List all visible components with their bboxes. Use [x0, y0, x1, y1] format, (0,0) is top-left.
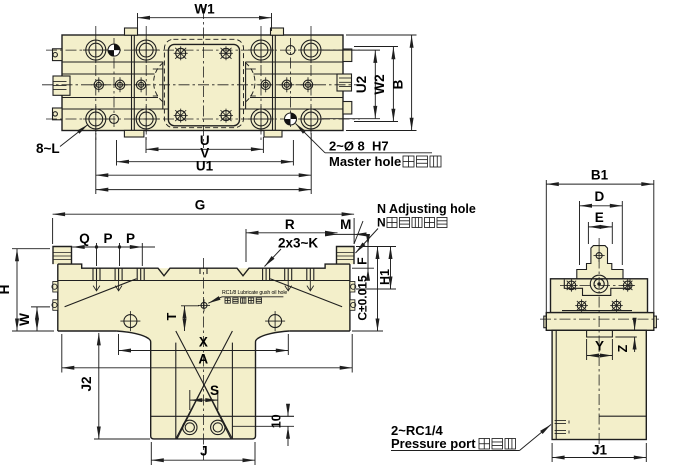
dimension W: [17, 307, 37, 331]
right rod-end blocks: [343, 49, 352, 114]
dimension M: [327, 217, 365, 244]
clamp bolt holes 8~L (big circles): [83, 37, 324, 132]
dimension B extension lines: [346, 35, 417, 131]
column cross diagonals: [176, 331, 233, 439]
dimension F: [356, 238, 370, 276]
body inner wall line: [555, 330, 557, 439]
callout N adjusting hole: [356, 202, 476, 253]
svg-text:2~Ø 8 H7: 2~Ø 8 H7: [329, 139, 389, 154]
svg-text:B: B: [391, 79, 406, 89]
dimension J1: [552, 443, 646, 458]
jaw edge verticals: [132, 35, 276, 131]
tongue hole: [594, 249, 605, 262]
dimension X extension lines: [119, 334, 289, 355]
body half line: [599, 415, 646, 417]
dimension E extension lines: [588, 222, 612, 244]
dimension J2 extension line: [94, 438, 150, 440]
callout 2~RC1/4 pressure port: [391, 423, 551, 451]
ear thread lines right: [337, 253, 354, 260]
dimension R: [246, 217, 338, 262]
bottom mounting tabs: [124, 130, 282, 137]
dimension Y: [587, 339, 613, 356]
ear thread lines left: [54, 253, 72, 260]
dimension J extension lines: [151, 442, 255, 465]
dimension H extension lines: [12, 249, 54, 331]
wedge triangle: [177, 385, 231, 439]
left rod-end blocks: [53, 49, 63, 120]
callout 2x3~K: [265, 236, 319, 267]
dimension H: [0, 249, 17, 331]
svg-text:Z: Z: [616, 344, 630, 352]
dimension J1 extension lines: [552, 443, 646, 462]
svg-text:10: 10: [270, 414, 284, 428]
dimension V: [117, 146, 294, 162]
svg-text:P: P: [126, 231, 135, 246]
svg-text:A: A: [198, 352, 208, 367]
dimension E: [588, 210, 612, 227]
front view centerline: [202, 258, 204, 460]
svg-text:E: E: [595, 210, 604, 225]
column horizontal line: [151, 416, 294, 426]
dimension B: [391, 35, 412, 130]
front view pedestal column fill: [117, 331, 290, 439]
dimension C: [377, 247, 379, 332]
svg-text:D: D: [595, 189, 605, 204]
dimension F H1 C+-0.015 extension lines: [352, 247, 396, 332]
dimension Z: [615, 318, 636, 352]
side pin blocks right: [350, 282, 356, 311]
front face holes: [120, 311, 285, 331]
dimension G extension lines: [53, 218, 355, 244]
dimension U1: [96, 159, 311, 176]
front view outline: [53, 247, 354, 332]
svg-text:W1: W1: [194, 2, 215, 17]
svg-text:8~L: 8~L: [36, 141, 60, 156]
left piston-rod section block: [53, 76, 70, 95]
column inner vertical lines: [176, 343, 233, 439]
dimension B1 extension lines: [546, 180, 654, 314]
svg-text:C±0.015: C±0.015: [356, 275, 370, 321]
dimension W extension lines: [31, 306, 50, 308]
svg-text:W2: W2: [372, 74, 387, 94]
dimension D: [580, 189, 623, 206]
dimension W2 extension lines: [354, 47, 398, 122]
dimension Y extension lines: [587, 339, 613, 360]
svg-text:P: P: [103, 231, 112, 246]
dimension J: [151, 444, 255, 461]
svg-text:R: R: [285, 217, 295, 232]
svg-text:U1: U1: [196, 159, 214, 174]
dimension U: [146, 133, 263, 149]
svg-text:J: J: [200, 444, 208, 459]
svg-text:H1: H1: [378, 269, 392, 285]
centerlines top view: [42, 8, 362, 148]
dimension J2: [79, 333, 99, 439]
side view fills: [544, 246, 657, 440]
dimension H1: [378, 247, 392, 290]
callout RC1/8 lubricate oil hole: [208, 290, 287, 303]
centre body block: [168, 44, 239, 125]
tongue slot below flange: [587, 330, 613, 337]
dimension U2 extension lines: [322, 50, 380, 119]
wedge diagonal lines: [65, 279, 343, 307]
svg-text:J1: J1: [592, 443, 608, 458]
dimension B1: [546, 168, 654, 185]
dimension G: [53, 198, 355, 215]
side pin blocks left: [52, 282, 58, 311]
svg-text:RC1/8 Lubricate gush oil hole: RC1/8 Lubricate gush oil hole: [222, 290, 287, 296]
dimension W1: [138, 2, 272, 18]
front view body fill: [53, 247, 354, 332]
svg-text:2x3~K: 2x3~K: [278, 236, 318, 251]
svg-text:H: H: [0, 285, 12, 295]
dashed stroke circle (jaw open position): [154, 63, 255, 103]
serration slot clusters 2x3~K: [93, 268, 314, 280]
dimension D extension lines: [580, 201, 623, 265]
clamp screw thread symbols (triangles): [93, 281, 314, 291]
dimension A extension lines: [62, 334, 352, 373]
svg-text:G: G: [195, 198, 206, 213]
top view: gripper body plan: [62, 35, 343, 131]
dimension U1 extension lines: [96, 133, 311, 194]
dimension U2: [354, 50, 375, 118]
serration strip bottom line: [58, 280, 350, 282]
master hole datum symbols 2~o8 H7: [108, 44, 297, 125]
centre tab ticks: [200, 268, 207, 274]
dimension W2: [372, 47, 393, 121]
svg-text:U2: U2: [354, 76, 369, 93]
middle row adjusting holes: [91, 77, 315, 92]
svg-text:M: M: [340, 217, 351, 232]
svg-text:N Adjusting hole: N Adjusting hole: [377, 202, 476, 216]
oil gush hole: [198, 299, 210, 311]
pedestal column outline: [117, 331, 290, 439]
svg-text:Pressure port: Pressure port: [391, 436, 476, 451]
dimension T: [165, 306, 199, 331]
guide rail lines: [62, 62, 343, 109]
svg-text:W: W: [17, 313, 32, 326]
svg-text:X: X: [199, 335, 208, 350]
dimension W1 extension lines: [138, 13, 272, 31]
callout 2~o8 H7 master hole: [296, 124, 442, 170]
svg-text:F: F: [356, 257, 370, 265]
plate corner screws: [565, 279, 634, 312]
svg-text:S: S: [210, 383, 219, 398]
dimension V extension lines: [117, 140, 294, 166]
column mounting holes: [183, 420, 225, 434]
dimension S: [190, 383, 219, 410]
svg-text:B1: B1: [591, 168, 609, 183]
svg-text:Master hole: Master hole: [329, 154, 405, 169]
pressure ports 2~RC1/4: [555, 421, 569, 434]
centre block thread holes: [174, 46, 233, 122]
svg-text:Y: Y: [595, 339, 604, 354]
top mounting tabs: [125, 28, 284, 35]
dimension overall: [96, 189, 311, 191]
dashed jaw outline square: [164, 39, 243, 127]
svg-text:N: N: [377, 216, 386, 230]
svg-text:Q: Q: [79, 231, 90, 246]
dimension U extension lines: [146, 137, 263, 153]
dimension A: [62, 352, 352, 368]
callout 8~L: [36, 125, 88, 157]
svg-text:J2: J2: [79, 376, 94, 391]
side view centerlines: [540, 238, 659, 452]
right piston-rod section block: [337, 74, 352, 91]
dimension 10: [270, 404, 289, 446]
small plain holes: [110, 46, 296, 124]
pivot boss circle: [590, 275, 608, 293]
svg-text:T: T: [165, 312, 179, 320]
dimension Q P P: [72, 231, 155, 266]
dimension X: [119, 335, 289, 351]
